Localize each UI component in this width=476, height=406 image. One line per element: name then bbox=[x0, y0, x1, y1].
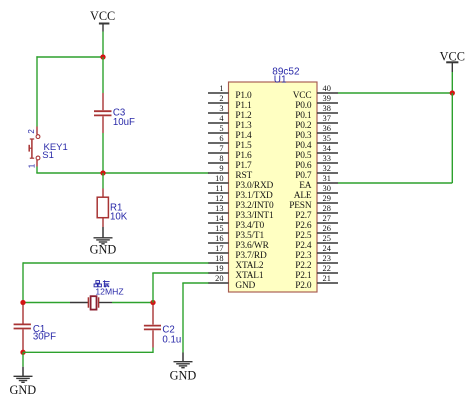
U1 pin 31 (EA) bbox=[299, 174, 338, 191]
U1 pin 22 (P2.1) bbox=[295, 264, 338, 281]
U1 pin 33 (P0.6) bbox=[295, 154, 338, 171]
U1 pin 34 (P0.5) bbox=[295, 144, 338, 161]
svg-text:30: 30 bbox=[323, 184, 331, 193]
op: IC U1 89c52 body bbox=[229, 82, 318, 292]
svg-text:P1.5: P1.5 bbox=[235, 141, 252, 151]
svg-text:P1.0: P1.0 bbox=[235, 91, 252, 101]
svg-text:U1: U1 bbox=[274, 74, 287, 85]
svg-text:S1: S1 bbox=[42, 150, 54, 161]
svg-text:5: 5 bbox=[219, 124, 223, 133]
U1 pin 24 (P2.3) bbox=[295, 244, 338, 261]
wire: XTAL2 pin 18 (23,263)-(208,263) bbox=[23, 262, 209, 264]
junction node: XTAL2/C1 bbox=[20, 300, 25, 305]
svg-text:RST: RST bbox=[235, 171, 252, 181]
U1 pin 19 (XTAL1) bbox=[208, 264, 264, 281]
svg-text:40: 40 bbox=[323, 84, 331, 93]
U1 pin 1 (P1.0) bbox=[208, 84, 252, 101]
wire: VCC stem to junction at (103,57) bbox=[102, 32, 104, 58]
svg-text:P2.2: P2.2 bbox=[295, 261, 312, 271]
U1 pin 6 (P1.5) bbox=[208, 134, 252, 151]
svg-text:P1.3: P1.3 bbox=[235, 121, 252, 131]
junction node: XTAL1/C2 bbox=[150, 300, 155, 305]
svg-text:18: 18 bbox=[215, 254, 223, 263]
svg-text:10uF: 10uF bbox=[113, 117, 135, 128]
svg-text:13: 13 bbox=[215, 204, 223, 213]
svg-text:39: 39 bbox=[323, 94, 331, 103]
U1 pin 37 (P0.2) bbox=[295, 114, 338, 131]
U1 pin 3 (P1.2) bbox=[208, 104, 252, 121]
svg-text:33: 33 bbox=[323, 154, 331, 163]
U1 pin 4 (P1.3) bbox=[208, 114, 252, 131]
svg-text:P0.6: P0.6 bbox=[295, 161, 312, 171]
svg-text:XTAL1: XTAL1 bbox=[235, 271, 263, 281]
svg-text:P1.7: P1.7 bbox=[235, 161, 252, 171]
ground symbol (below R1) bbox=[90, 227, 117, 257]
svg-text:P3.0/RXD: P3.0/RXD bbox=[235, 181, 273, 191]
svg-text:12: 12 bbox=[215, 194, 223, 203]
capacitor C3 bbox=[94, 93, 112, 133]
svg-text:24: 24 bbox=[323, 244, 332, 253]
svg-text:27: 27 bbox=[323, 214, 331, 223]
wire: (23,352.3)-(23,366.8) bbox=[22, 352, 24, 367]
U1 pin 15 (P3.5/T1) bbox=[208, 224, 264, 241]
svg-text:P0.4: P0.4 bbox=[295, 141, 312, 151]
svg-text:22: 22 bbox=[323, 264, 331, 273]
U1 pin 35 (P0.4) bbox=[295, 134, 338, 151]
svg-text:P3.2/INT0: P3.2/INT0 bbox=[235, 201, 274, 211]
svg-text:1: 1 bbox=[219, 84, 223, 93]
U1 pin 29 (PESN) bbox=[289, 194, 338, 211]
U1 pin 20 (GND) bbox=[208, 274, 256, 291]
wire: vertical (153,273)-(153,302.5) bbox=[152, 273, 154, 303]
svg-text:VCC: VCC bbox=[90, 9, 115, 23]
wire: crystal right (112,302.5)-(153,302.5) bbox=[112, 302, 153, 304]
wire: GND pin 20 (183,283)-(208,283) bbox=[182, 282, 208, 284]
svg-text:37: 37 bbox=[323, 114, 331, 123]
svg-text:1: 1 bbox=[27, 163, 36, 168]
U1 pin 2 (P1.1) bbox=[208, 94, 252, 111]
wire: pin 40 VCC (338,93)-(452,93) bbox=[338, 92, 452, 94]
svg-text:19: 19 bbox=[215, 264, 223, 273]
svg-text:30PF: 30PF bbox=[33, 332, 56, 343]
pushbutton switch KEY1 S1 bbox=[29, 127, 40, 167]
svg-text:P1.2: P1.2 bbox=[235, 111, 252, 121]
wire: XTAL1 pin 19 (153,273)-(208,273) bbox=[152, 272, 208, 274]
crystal Y1 12MHZ bbox=[70, 296, 112, 309]
wire: (103,173)-(103,188.5) to R1 bbox=[102, 173, 104, 189]
U1 pin 21 (P2.0) bbox=[295, 274, 338, 291]
svg-text:P2.0: P2.0 bbox=[295, 281, 312, 291]
svg-text:29: 29 bbox=[323, 194, 331, 203]
svg-text:25: 25 bbox=[323, 234, 331, 243]
svg-text:P2.7: P2.7 bbox=[295, 211, 312, 221]
U1 pin 26 (P2.5) bbox=[295, 224, 338, 241]
svg-text:P1.4: P1.4 bbox=[235, 131, 252, 141]
svg-text:17: 17 bbox=[215, 244, 223, 253]
svg-text:6: 6 bbox=[219, 134, 223, 143]
svg-text:P2.1: P2.1 bbox=[295, 271, 312, 281]
svg-text:23: 23 bbox=[323, 254, 331, 263]
junction node: RST net bbox=[100, 170, 105, 175]
U1 pin 9 (RST) bbox=[208, 164, 252, 181]
wire: bottom (23,352.3)-(153,352.3) bbox=[23, 351, 153, 353]
wire: vertical (23,263)-(23,302.5) bbox=[22, 262, 24, 302]
U1 pin 39 (P0.0) bbox=[295, 94, 338, 111]
svg-text:14: 14 bbox=[215, 214, 224, 223]
svg-text:28: 28 bbox=[323, 204, 331, 213]
svg-text:EA: EA bbox=[299, 181, 312, 191]
capacitor C1 bbox=[14, 305, 31, 352]
U1 pin 8 (P1.7) bbox=[208, 154, 252, 171]
wire: C2 bottom corner (153,347.5)-(153,352.3) bbox=[152, 348, 154, 354]
svg-text:P3.5/T1: P3.5/T1 bbox=[235, 231, 264, 241]
svg-text:9: 9 bbox=[219, 164, 223, 173]
svg-text:P0.7: P0.7 bbox=[295, 171, 312, 181]
wire: switch bottom (37,166.5)-(37,173) bbox=[36, 167, 38, 174]
U1 pin 28 (P2.7) bbox=[295, 204, 338, 221]
svg-text:P3.7/RD: P3.7/RD bbox=[235, 251, 267, 261]
resistor R1 bbox=[97, 189, 108, 228]
wire: (23,302.5)-(70,302.5) to crystal bbox=[23, 302, 70, 304]
junction node: VCC/C3/KEY1 bbox=[100, 54, 105, 59]
U1 pin 11 (P3.1/TXD) bbox=[208, 184, 273, 201]
ground symbol (bottom right) bbox=[170, 353, 197, 383]
svg-text:P0.1: P0.1 bbox=[295, 111, 312, 121]
wire: EA pin 31 (338,183)-(452,183) bbox=[338, 182, 452, 184]
svg-text:2: 2 bbox=[27, 129, 36, 134]
svg-text:PESN: PESN bbox=[289, 201, 312, 211]
svg-text:36: 36 bbox=[323, 124, 331, 133]
wire: vertical (452,93)-(452,183) bbox=[451, 93, 453, 183]
svg-text:VCC: VCC bbox=[293, 91, 312, 101]
svg-text:P0.3: P0.3 bbox=[295, 131, 312, 141]
svg-text:8: 8 bbox=[219, 154, 223, 163]
capacitor C2 bbox=[144, 305, 161, 348]
ground symbol (bottom left) bbox=[9, 367, 36, 397]
U1 pin 40 (VCC) bbox=[293, 84, 338, 101]
U1 pin 13 (P3.3/INT1) bbox=[208, 204, 274, 221]
label crystal (CJK) bbox=[94, 280, 110, 287]
svg-text:P2.4: P2.4 bbox=[295, 241, 312, 251]
svg-text:P3.6/WR: P3.6/WR bbox=[235, 241, 269, 251]
wire: (103,57)-(103,93) to C3 bbox=[102, 57, 104, 93]
svg-text:P0.0: P0.0 bbox=[295, 101, 312, 111]
U1 pin 32 (P0.7) bbox=[295, 164, 338, 181]
wire: VCC stem (452,72)-(452,93) bbox=[451, 72, 453, 93]
svg-text:3: 3 bbox=[219, 104, 223, 113]
svg-text:4: 4 bbox=[219, 114, 224, 123]
U1 pin 27 (P2.6) bbox=[295, 214, 338, 231]
svg-text:P0.2: P0.2 bbox=[295, 121, 312, 131]
svg-text:12MHZ: 12MHZ bbox=[95, 287, 123, 297]
svg-text:10K: 10K bbox=[110, 211, 128, 222]
svg-text:P1.6: P1.6 bbox=[235, 151, 252, 161]
wire: vertical down to switch KEY1 (37,57)-(37,126.5) bbox=[36, 56, 38, 126]
U1 pin 10 (P3.0/RXD) bbox=[208, 174, 274, 191]
svg-text:26: 26 bbox=[323, 224, 331, 233]
svg-text:15: 15 bbox=[215, 224, 223, 233]
svg-text:7: 7 bbox=[219, 144, 223, 153]
U1 pin 7 (P1.6) bbox=[208, 144, 252, 161]
power symbol VCC (top right) bbox=[440, 50, 465, 72]
svg-text:GND: GND bbox=[235, 281, 255, 291]
svg-text:P2.6: P2.6 bbox=[295, 221, 312, 231]
svg-text:XTAL2: XTAL2 bbox=[235, 261, 263, 271]
svg-text:GND: GND bbox=[9, 383, 36, 397]
svg-text:16: 16 bbox=[215, 234, 223, 243]
svg-text:GND: GND bbox=[170, 368, 197, 382]
svg-text:21: 21 bbox=[323, 274, 331, 283]
junction node: VCC right bbox=[450, 90, 455, 95]
U1 pin 12 (P3.2/INT0) bbox=[208, 194, 274, 211]
svg-text:10: 10 bbox=[215, 174, 223, 183]
U1 pin 36 (P0.3) bbox=[295, 124, 338, 141]
wire: horizontal (37,57)-(103,57) bbox=[36, 56, 103, 58]
svg-text:31: 31 bbox=[323, 174, 331, 183]
svg-text:ALE: ALE bbox=[294, 191, 312, 201]
svg-text:20: 20 bbox=[215, 274, 223, 283]
U1 pin 16 (P3.6/WR) bbox=[208, 234, 270, 251]
svg-text:P2.5: P2.5 bbox=[295, 231, 312, 241]
junction node: C1/C2 gnd bbox=[20, 350, 25, 355]
svg-text:32: 32 bbox=[323, 164, 331, 173]
U1 pin 17 (P3.7/RD) bbox=[208, 244, 267, 261]
U1 pin 14 (P3.4/T0) bbox=[208, 214, 264, 231]
U1 pin 38 (P0.1) bbox=[295, 104, 338, 121]
svg-text:GND: GND bbox=[90, 243, 117, 257]
U1 pin 30 (ALE) bbox=[294, 184, 338, 201]
svg-text:P3.3/INT1: P3.3/INT1 bbox=[235, 211, 274, 221]
power symbol VCC (top left) bbox=[90, 9, 115, 32]
U1 pin 23 (P2.2) bbox=[295, 254, 338, 271]
U1 pin 18 (XTAL2) bbox=[208, 254, 264, 271]
svg-text:2: 2 bbox=[219, 94, 223, 103]
svg-text:34: 34 bbox=[323, 144, 332, 153]
svg-text:P0.5: P0.5 bbox=[295, 151, 312, 161]
wire: horizontal (37,173)-(103,173) bbox=[36, 172, 103, 174]
svg-text:P3.4/T0: P3.4/T0 bbox=[235, 221, 264, 231]
svg-text:P1.1: P1.1 bbox=[235, 101, 252, 111]
svg-text:0.1u: 0.1u bbox=[162, 335, 181, 346]
wire: vertical (183,283)-(183,352.5) bbox=[182, 283, 184, 353]
svg-text:P3.1/TXD: P3.1/TXD bbox=[235, 191, 273, 201]
U1 pin 25 (P2.4) bbox=[295, 234, 338, 251]
svg-text:35: 35 bbox=[323, 134, 331, 143]
svg-text:38: 38 bbox=[323, 104, 331, 113]
U1 pin 5 (P1.4) bbox=[208, 124, 252, 141]
wire: C3 bottom to RST net (103,133)-(103,173) bbox=[102, 133, 104, 173]
svg-text:P2.3: P2.3 bbox=[295, 251, 312, 261]
svg-text:11: 11 bbox=[215, 184, 223, 193]
wire: horizontal (103,173)-(208,173) to pin 9 RST bbox=[103, 172, 209, 174]
